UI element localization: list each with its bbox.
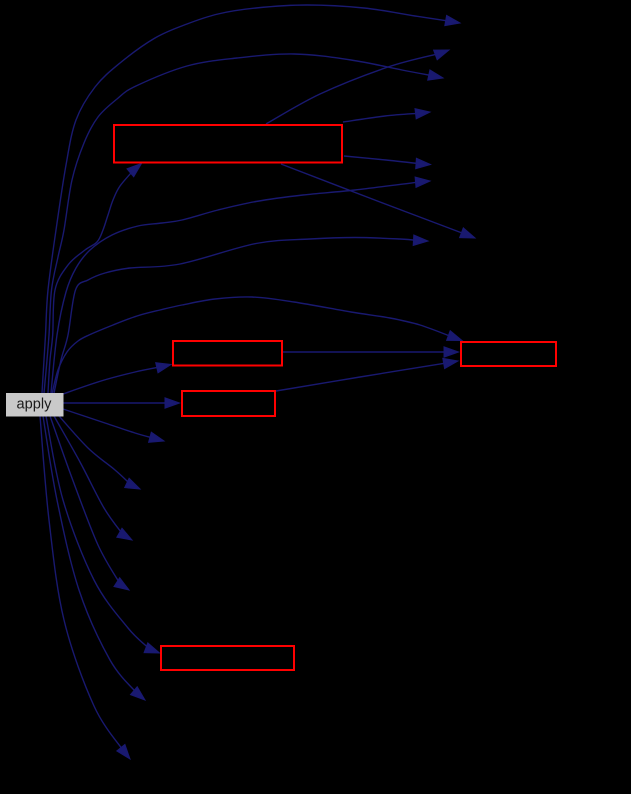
edge R1->n7 [344,156,431,169]
node B (red box) [182,391,275,416]
edge apply->n2 [44,54,443,393]
edge apply->d5 [46,416,160,653]
svg-text:apply: apply [17,396,53,412]
edge apply->n4 [54,235,428,393]
edge R1->n5 [266,50,449,124]
node A (red box) [173,341,282,366]
edge apply->n3 [51,177,430,393]
edge apply->d4 [50,416,129,590]
edge apply->n1 [42,5,460,393]
edge apply->nC [52,297,462,394]
edge apply->B [63,398,180,408]
edge R1->n6 [343,109,430,122]
edge B->C [276,358,458,391]
edge apply->d1 [63,409,164,442]
edge R1->n8 [281,164,475,238]
edge A->C [283,347,459,357]
edge apply->d7 [40,416,130,759]
node C (right red box) [461,342,556,366]
node R1 (top red box) [114,125,342,163]
node apply (root) [6,393,64,417]
edge apply->d2 [59,416,140,489]
node R5 (bottom red box) [161,646,294,670]
edge apply->A [63,363,171,394]
edge apply->r1 [48,164,142,394]
edge apply->d6 [43,416,145,700]
edge apply->d3 [54,416,132,540]
